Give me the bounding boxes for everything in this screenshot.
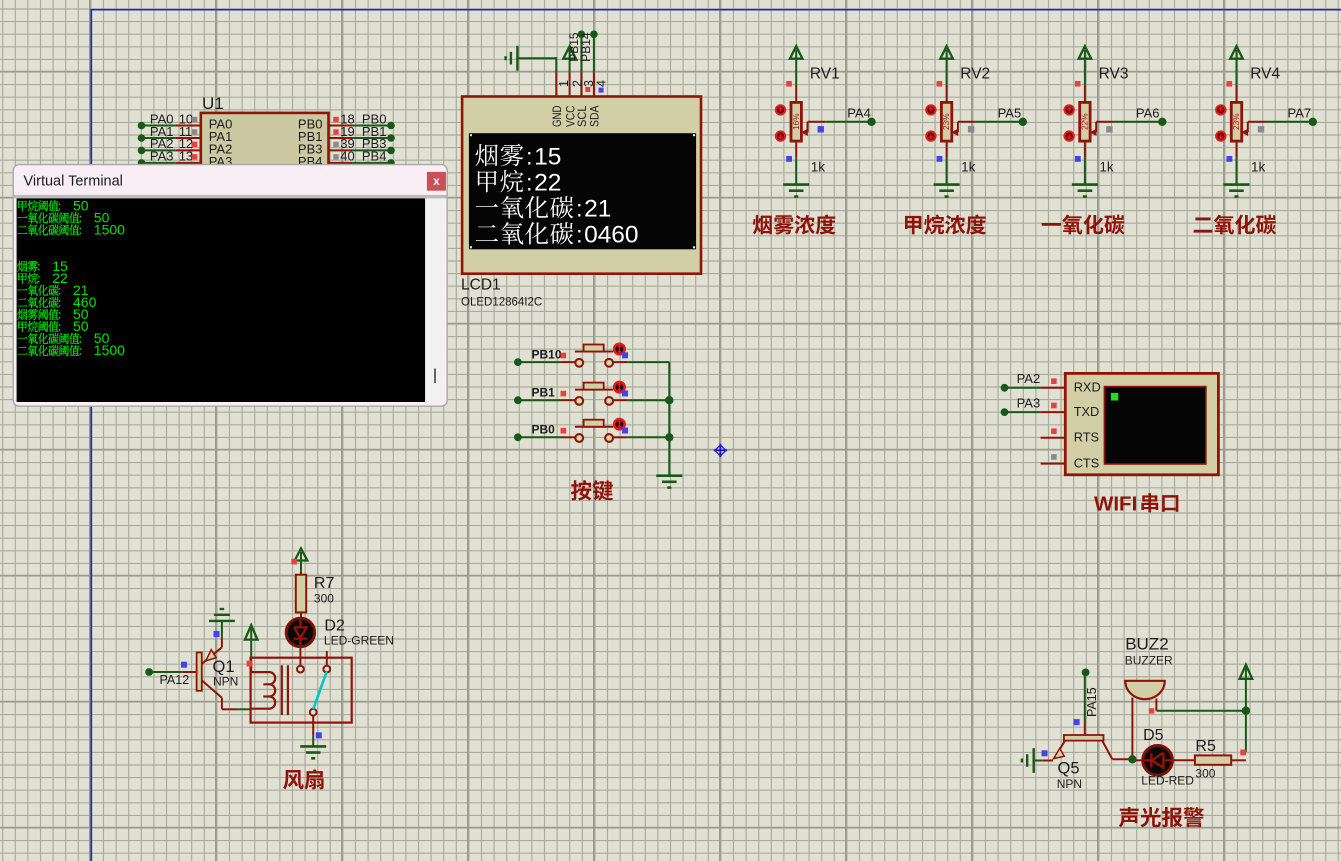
LCD screen <box>469 133 696 249</box>
ground (RV2) <box>934 183 960 186</box>
node PB10 wire <box>514 358 522 366</box>
U1 left pin PA1 (pin 11) wire <box>138 134 146 142</box>
WIFI pin RXD <box>1041 387 1066 389</box>
svg-text:1500: 1500 <box>94 342 125 358</box>
wiper of RV3 <box>1092 122 1097 133</box>
svg-text:40: 40 <box>340 149 354 164</box>
svg-text:OLED12864I2C: OLED12864I2C <box>461 297 542 309</box>
wire power to RV4 <box>1236 59 1238 85</box>
node PA2 wire to RXD <box>1001 384 1009 392</box>
svg-text:1k: 1k <box>811 160 826 175</box>
svg-text:2: 2 <box>584 196 598 223</box>
ground (RV1) <box>783 183 809 186</box>
button actuator PB1 <box>614 382 624 392</box>
svg-text:PB14: PB14 <box>579 32 593 62</box>
svg-text:LCD1: LCD1 <box>461 277 501 294</box>
relay contacts <box>297 666 304 673</box>
scrollbar track <box>425 198 444 401</box>
push button PB1 <box>575 389 613 391</box>
U1 right pin PB0 (pin 18) wire <box>329 125 353 127</box>
svg-text:NPN: NPN <box>213 675 238 689</box>
ground (Q5 emitter) <box>1032 748 1034 773</box>
led D2 LED-GREEN <box>286 618 314 646</box>
svg-text:R7: R7 <box>314 575 335 592</box>
svg-text:PA15: PA15 <box>1085 687 1099 717</box>
U1 left pin PA0 (pin 10) wire <box>138 122 146 130</box>
svg-text:SDA: SDA <box>588 105 602 127</box>
mcu U1 body <box>201 113 329 170</box>
svg-text:2: 2 <box>534 169 548 196</box>
svg-text:PA12: PA12 <box>160 673 190 687</box>
power +V (alarm) <box>1240 665 1253 679</box>
svg-text::: : <box>576 196 582 222</box>
LCD pin stubs <box>555 73 557 97</box>
svg-text:300: 300 <box>1195 767 1215 781</box>
node PB0 wire <box>514 433 522 441</box>
U1 right pin PB3 (pin 39) wire <box>329 149 353 151</box>
junction node at D5 anode <box>1128 755 1136 763</box>
svg-text:PA4: PA4 <box>847 106 871 121</box>
svg-text:2: 2 <box>548 169 562 196</box>
LCD screen text <box>475 144 498 166</box>
junction <box>665 433 673 441</box>
window content frame <box>14 195 446 199</box>
power +V (RV4) <box>1230 46 1243 59</box>
U1 right pin PB4 (pin 40) wire <box>329 162 353 164</box>
svg-text:D5: D5 <box>1143 727 1164 744</box>
transistor Q5 <box>1084 722 1086 735</box>
wire gnd to pin1 <box>516 57 556 59</box>
led D5 LED-RED <box>1136 759 1144 761</box>
svg-text:PB4: PB4 <box>362 149 387 164</box>
wire buzzer to +V rail <box>1156 710 1246 712</box>
Virtual Terminal window <box>13 165 447 407</box>
wire power to RV1 <box>795 59 797 85</box>
wire wiper to node PA7 <box>1248 121 1266 123</box>
svg-text:50: 50 <box>73 318 89 334</box>
svg-text:WIFI: WIFI <box>1094 493 1137 516</box>
marker squares pins 3,4 <box>585 87 590 92</box>
relay coil <box>251 672 276 709</box>
svg-text:300: 300 <box>314 592 334 606</box>
button actuator PB10 <box>614 344 624 354</box>
svg-text:x: x <box>433 176 440 188</box>
Q5 emitter <box>1055 741 1066 758</box>
svg-text:PB0: PB0 <box>532 423 556 437</box>
svg-text:RV3: RV3 <box>1099 66 1129 83</box>
WIFI screen green pixel <box>1111 393 1118 401</box>
svg-text:Virtual Terminal: Virtual Terminal <box>24 174 123 190</box>
svg-text:RV1: RV1 <box>810 66 840 83</box>
wire RV1 to ground <box>795 141 797 157</box>
relay common to ground <box>312 716 314 736</box>
buzzer right pin <box>1155 699 1157 711</box>
wire PB1 button to trunk <box>613 399 627 401</box>
svg-text:TXD: TXD <box>1074 404 1100 419</box>
power +V (R7) <box>295 549 308 561</box>
svg-text:0: 0 <box>625 222 639 249</box>
wire D2 to relay contact <box>299 647 301 666</box>
power +V (relay coil) <box>245 625 258 640</box>
junction <box>1242 707 1250 715</box>
wire D5 to R5 <box>1173 759 1195 761</box>
svg-text:R5: R5 <box>1195 738 1216 755</box>
node PA3 wire to TXD <box>1001 408 1009 416</box>
svg-text:PB1: PB1 <box>532 385 556 399</box>
relay body <box>251 658 352 723</box>
svg-text:0: 0 <box>584 222 598 249</box>
wire PB10 button to trunk <box>613 361 627 363</box>
svg-text::: : <box>526 143 532 169</box>
svg-text:RTS: RTS <box>1074 430 1099 445</box>
transistor Q1 base wire from PA12 <box>145 668 153 676</box>
wire RV4 to ground <box>1236 141 1238 157</box>
svg-text:1k: 1k <box>1251 160 1266 175</box>
origin marker cursor <box>714 444 727 457</box>
svg-text:LED-GREEN: LED-GREEN <box>324 634 394 648</box>
relay switch arm (cyan) <box>313 672 326 709</box>
resistor R7 <box>296 575 306 613</box>
wire +V rail down to R5 <box>1245 679 1247 711</box>
svg-text:BUZZER: BUZZER <box>1125 654 1173 668</box>
svg-text:23%: 23% <box>941 113 951 130</box>
ground (LCD pin 1) <box>516 46 518 71</box>
push button PB10 <box>575 351 613 353</box>
svg-text:NPN: NPN <box>1057 777 1082 791</box>
svg-text:1k: 1k <box>961 160 976 175</box>
node PB14 wire to LCD SDA <box>590 31 598 39</box>
svg-text:PA2: PA2 <box>1017 371 1041 386</box>
ground (RV4) <box>1224 183 1250 186</box>
label 风扇 <box>283 770 304 790</box>
svg-text:50: 50 <box>73 197 89 213</box>
wire PB0 button to trunk <box>613 436 627 438</box>
svg-text:13: 13 <box>179 149 193 164</box>
transistor Q1 <box>197 653 202 691</box>
wiper of RV2 <box>953 122 958 133</box>
svg-text:D2: D2 <box>324 618 345 635</box>
svg-text:16%: 16% <box>791 113 801 130</box>
ground (Q1 collector) <box>209 620 235 622</box>
svg-text:1k: 1k <box>1099 160 1114 175</box>
svg-text:RV4: RV4 <box>1250 66 1280 83</box>
wire power to RV2 <box>946 59 948 85</box>
potentiometer RV4 <box>1236 85 1238 102</box>
svg-text:CTS: CTS <box>1074 455 1100 470</box>
svg-text:PA6: PA6 <box>1136 106 1160 121</box>
ground (buttons) <box>656 474 682 477</box>
label 烟雾浓度 <box>753 215 772 235</box>
wire emitter to ground <box>1042 760 1053 762</box>
svg-text:1: 1 <box>598 196 612 223</box>
svg-text:6: 6 <box>611 222 625 249</box>
potentiometer RV2 <box>946 85 948 102</box>
LCD1 body <box>462 97 701 274</box>
node PA15 wire to Q5 base <box>1082 669 1090 677</box>
svg-text:22%: 22% <box>1080 113 1090 130</box>
terminal text <box>18 201 26 212</box>
wiper of RV1 <box>803 122 808 133</box>
Q1 collector <box>202 647 222 664</box>
U1 left pin PA3 (pin 13) wire <box>138 159 146 167</box>
svg-text:Q5: Q5 <box>1058 760 1080 778</box>
WIFI pin TXD <box>1041 411 1066 413</box>
label 声光报警 <box>1119 807 1139 827</box>
wire RV2 to ground <box>946 141 948 157</box>
scrollbar thumb <box>434 369 436 384</box>
svg-text:RV2: RV2 <box>960 66 990 83</box>
ground (RV3) <box>1072 183 1098 186</box>
power +V (LCD pin 2) <box>563 46 576 59</box>
svg-text:1500: 1500 <box>94 222 125 238</box>
wiper of RV4 <box>1243 122 1248 133</box>
power +V (RV3) <box>1079 46 1092 59</box>
label 二氧化碳 <box>1194 218 1213 233</box>
node PB1 wire <box>514 396 522 404</box>
WIFI pin RTS <box>1041 437 1066 439</box>
svg-text:23%: 23% <box>1231 113 1241 130</box>
window close button <box>427 172 446 191</box>
node PB15 wire to LCD SCL <box>578 31 586 39</box>
power +V (RV2) <box>940 46 953 59</box>
wire wiper to node PA6 <box>1096 121 1114 123</box>
U1 left pin PA2 (pin 12) wire <box>138 147 146 155</box>
wire power to RV3 <box>1084 59 1086 85</box>
svg-text:5: 5 <box>548 143 562 170</box>
wire R7 to D2 <box>300 612 302 619</box>
U1 right pin PB1 (pin 19) wire <box>329 137 353 139</box>
label 甲烷浓度 <box>905 216 921 235</box>
wire button common trunk <box>668 362 670 475</box>
relay core <box>281 665 283 715</box>
svg-text:PA5: PA5 <box>998 106 1022 121</box>
resistor R5 <box>1195 755 1231 764</box>
buzzer left pin down to node <box>1131 698 1133 758</box>
svg-text:PA7: PA7 <box>1288 106 1312 121</box>
svg-text::: : <box>526 169 532 195</box>
label 一氧化碳 <box>1042 223 1061 226</box>
Q1 emitter to relay coil <box>202 680 222 697</box>
potentiometer RV1 <box>795 85 797 102</box>
svg-text:RXD: RXD <box>1074 380 1101 395</box>
junction <box>665 396 673 404</box>
buzzer BUZ2 <box>1125 681 1165 699</box>
svg-text:GND: GND <box>550 106 564 128</box>
wire power to coil <box>250 640 252 659</box>
label 按键 <box>571 480 591 500</box>
Q5 collector to D5 <box>1102 741 1112 760</box>
svg-text:22: 22 <box>52 270 68 286</box>
svg-text:PA3: PA3 <box>1017 396 1041 411</box>
wire power to R7 <box>300 561 302 572</box>
svg-text:BUZ2: BUZ2 <box>1125 635 1168 654</box>
WIFI screen <box>1104 387 1206 464</box>
potentiometer RV3 <box>1084 85 1086 102</box>
WIFI module U? body <box>1065 373 1218 474</box>
svg-text:PB10: PB10 <box>532 347 562 361</box>
svg-text:4: 4 <box>598 222 612 249</box>
svg-text:4: 4 <box>595 80 609 87</box>
ground (relay) <box>300 745 326 748</box>
relay NC pin stub <box>326 651 328 666</box>
wire wiper to node PA5 <box>958 121 976 123</box>
svg-text:PA3: PA3 <box>150 149 174 164</box>
svg-text:LED-RED: LED-RED <box>1141 774 1194 788</box>
svg-text:U1: U1 <box>202 94 224 113</box>
svg-text:1: 1 <box>534 143 548 170</box>
svg-text:1: 1 <box>557 80 571 87</box>
svg-text:Q1: Q1 <box>213 658 235 676</box>
wire RV3 to ground <box>1084 141 1086 157</box>
wire wiper to node PA4 <box>808 121 826 123</box>
power +V (RV1) <box>790 46 803 59</box>
push button PB0 <box>575 426 613 428</box>
WIFI pin CTS <box>1041 463 1066 465</box>
terminal screen <box>17 198 426 402</box>
svg-text::: : <box>576 222 582 248</box>
button actuator PB0 <box>614 419 624 429</box>
wire R5 to +V rail <box>1231 759 1246 761</box>
